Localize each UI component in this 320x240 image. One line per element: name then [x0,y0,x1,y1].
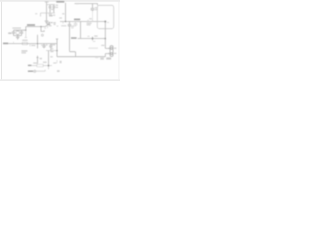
wire tick x92.5 on y21.5 [92,20,94,22]
text near connector [101,45,104,46]
wire stub x30 down [29,44,31,47]
background [0,0,120,81]
right page border [118,2,121,80]
power flag bottom x37.5 [36,56,38,65]
wire tick x47.5 below cluster [47,27,49,29]
module U1 box [97,5,113,28]
text under wire y21.5 right [87,23,92,24]
wire ground stub top cluster [46,13,48,21]
text near x65.5 [62,13,64,14]
net label top VCC [56,1,64,3]
wire horizontal y56.7 [57,56,105,58]
bottom gray band [0,79,120,81]
text caps mid labels [41,45,43,46]
capacitor C10 x69.5 [68,22,72,51]
net label above y26.5 [27,24,35,26]
wire tick x13.5 above y43.5 [13,42,15,44]
resistor R2 [37,64,43,67]
dark net labels [3,1,80,72]
connector J1 pin circles [111,47,113,49]
wire vertical x80.5 [80,22,82,39]
wire bottom rail top cluster [41,13,56,17]
wire horizontal y38.5 ANT [78,38,106,40]
capacitor C8 [49,44,52,51]
wire tick x88 on y21.5 [87,20,89,22]
left page border [0,2,3,80]
top gray band [0,0,120,2]
wire horizontal y43.5 [8,43,57,45]
wire vertical x57 faint bottom [56,60,58,63]
junction dots [25,21,106,67]
wire top net vertical x46.5 [45,2,49,13]
capacitor C5 crystal left [12,30,15,35]
circle on wire y70.5 [34,70,36,72]
wire cap C9 lower faint [92,11,94,21]
connector J1 body [110,46,113,57]
wire net label vertical x65.5 [65,3,67,22]
wire rail y4.5 top cluster [47,4,56,6]
text above y56.7 right [88,48,98,49]
capacitor C11 x75.5 [74,22,78,27]
wire y70.5 [33,70,45,72]
text C9 labels [95,7,98,8]
ground symbol crystal [16,37,20,39]
node stub x92.5 [92,37,94,41]
wire vertical x57 [56,39,58,57]
wire crystal case down [25,30,28,37]
crystal Q1 box [17,30,19,35]
capacitor C9 [91,4,95,12]
faint text blobs [8,3,116,72]
text crystal label [8,32,11,34]
net label left y65.5 [28,65,32,66]
text bottom resistor labels [40,58,42,60]
wire y65.5 [31,65,52,67]
text below y21.5 left [57,26,59,27]
net label above y21.5 [74,19,80,21]
capacitor C2 [52,5,55,13]
net label left y70.5 [28,71,33,72]
ground symbol top cluster [45,21,49,23]
wire horizontal y21.5 [60,21,105,23]
ring marker near x42 [41,34,43,36]
wire horizontal y26.5 [26,26,46,28]
resistor R1 [22,42,27,45]
capacitor C1 [49,5,52,13]
wire vertical x48.5 long [48,51,50,66]
wire crystal bottom rail [14,36,22,37]
wire vertical x37.5 [37,35,39,49]
wire horizontal y3.5 [75,4,98,6]
net label left of y43.5 [3,43,8,45]
text below y21.5 mid [71,26,74,27]
wire rail y50.5 [46,50,57,52]
text resistor R1 labels [22,40,27,41]
text near node x92.5 y38.5 [94,35,97,36]
wire tick x63 on y21.5 [62,22,64,24]
connector J1 pin stubs [105,48,110,56]
capacitor C6 crystal right [20,30,23,35]
text cluster mid dark-ish [46,22,48,23]
text cap labels top cluster [51,4,53,5]
wire vertical x105.3 [104,22,106,49]
net label ANT y38.5 [71,37,77,39]
wire crystal left riser [14,27,26,31]
text label start wire y3.5 [76,3,79,4]
wire corner x69.5 to y51.7 [70,51,76,57]
capacitor C7 [42,44,45,49]
text title block bottom right [95,56,98,59]
wire jog under cluster [41,27,44,32]
